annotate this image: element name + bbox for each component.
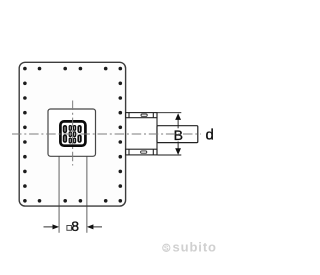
extension line left (grate width) [58,156,60,232]
dim square8: dimension line left tail + arrow [44,226,54,228]
dim B: dimension line [177,118,179,129]
svg-text:8: 8 [71,218,79,234]
dim square8: dimension line right tail + arrow [93,226,103,228]
label square symbol [67,226,72,231]
watermark subito [163,239,217,254]
dim B: bottom extension line [158,154,182,156]
drain frame square [48,109,96,156]
svg-text:d: d [206,127,214,144]
grate slots column 2 [69,125,72,144]
side view: body right edge [156,113,158,155]
top bar slot [141,114,147,116]
outlet pipe [157,126,198,143]
centerline vertical [72,101,74,166]
grate slots column 1 [63,125,67,143]
grate frame [60,121,85,145]
bottom bar slot [141,151,147,153]
dim B: down arrow [175,148,181,155]
mounting plate front view [19,62,125,206]
screw hole dots: top row [38,67,108,71]
grate slots column 4 [77,125,81,143]
svg-text:S: S [164,245,169,252]
side view: flange top bar [126,113,157,118]
screw hole dots: left column [23,67,27,203]
screw hole dots: bottom row [38,199,108,203]
dim B: top extension line [158,112,182,114]
grate slots column 3 [73,125,76,144]
centerline horizontal [12,133,201,135]
screw hole dots: right column [119,67,123,203]
dim B: up arrow [175,113,181,120]
side view: flange bottom bar [126,149,157,155]
svg-text:subito: subito [173,239,217,254]
svg-text:B: B [174,127,183,143]
extension line right (grate width) [86,156,88,232]
